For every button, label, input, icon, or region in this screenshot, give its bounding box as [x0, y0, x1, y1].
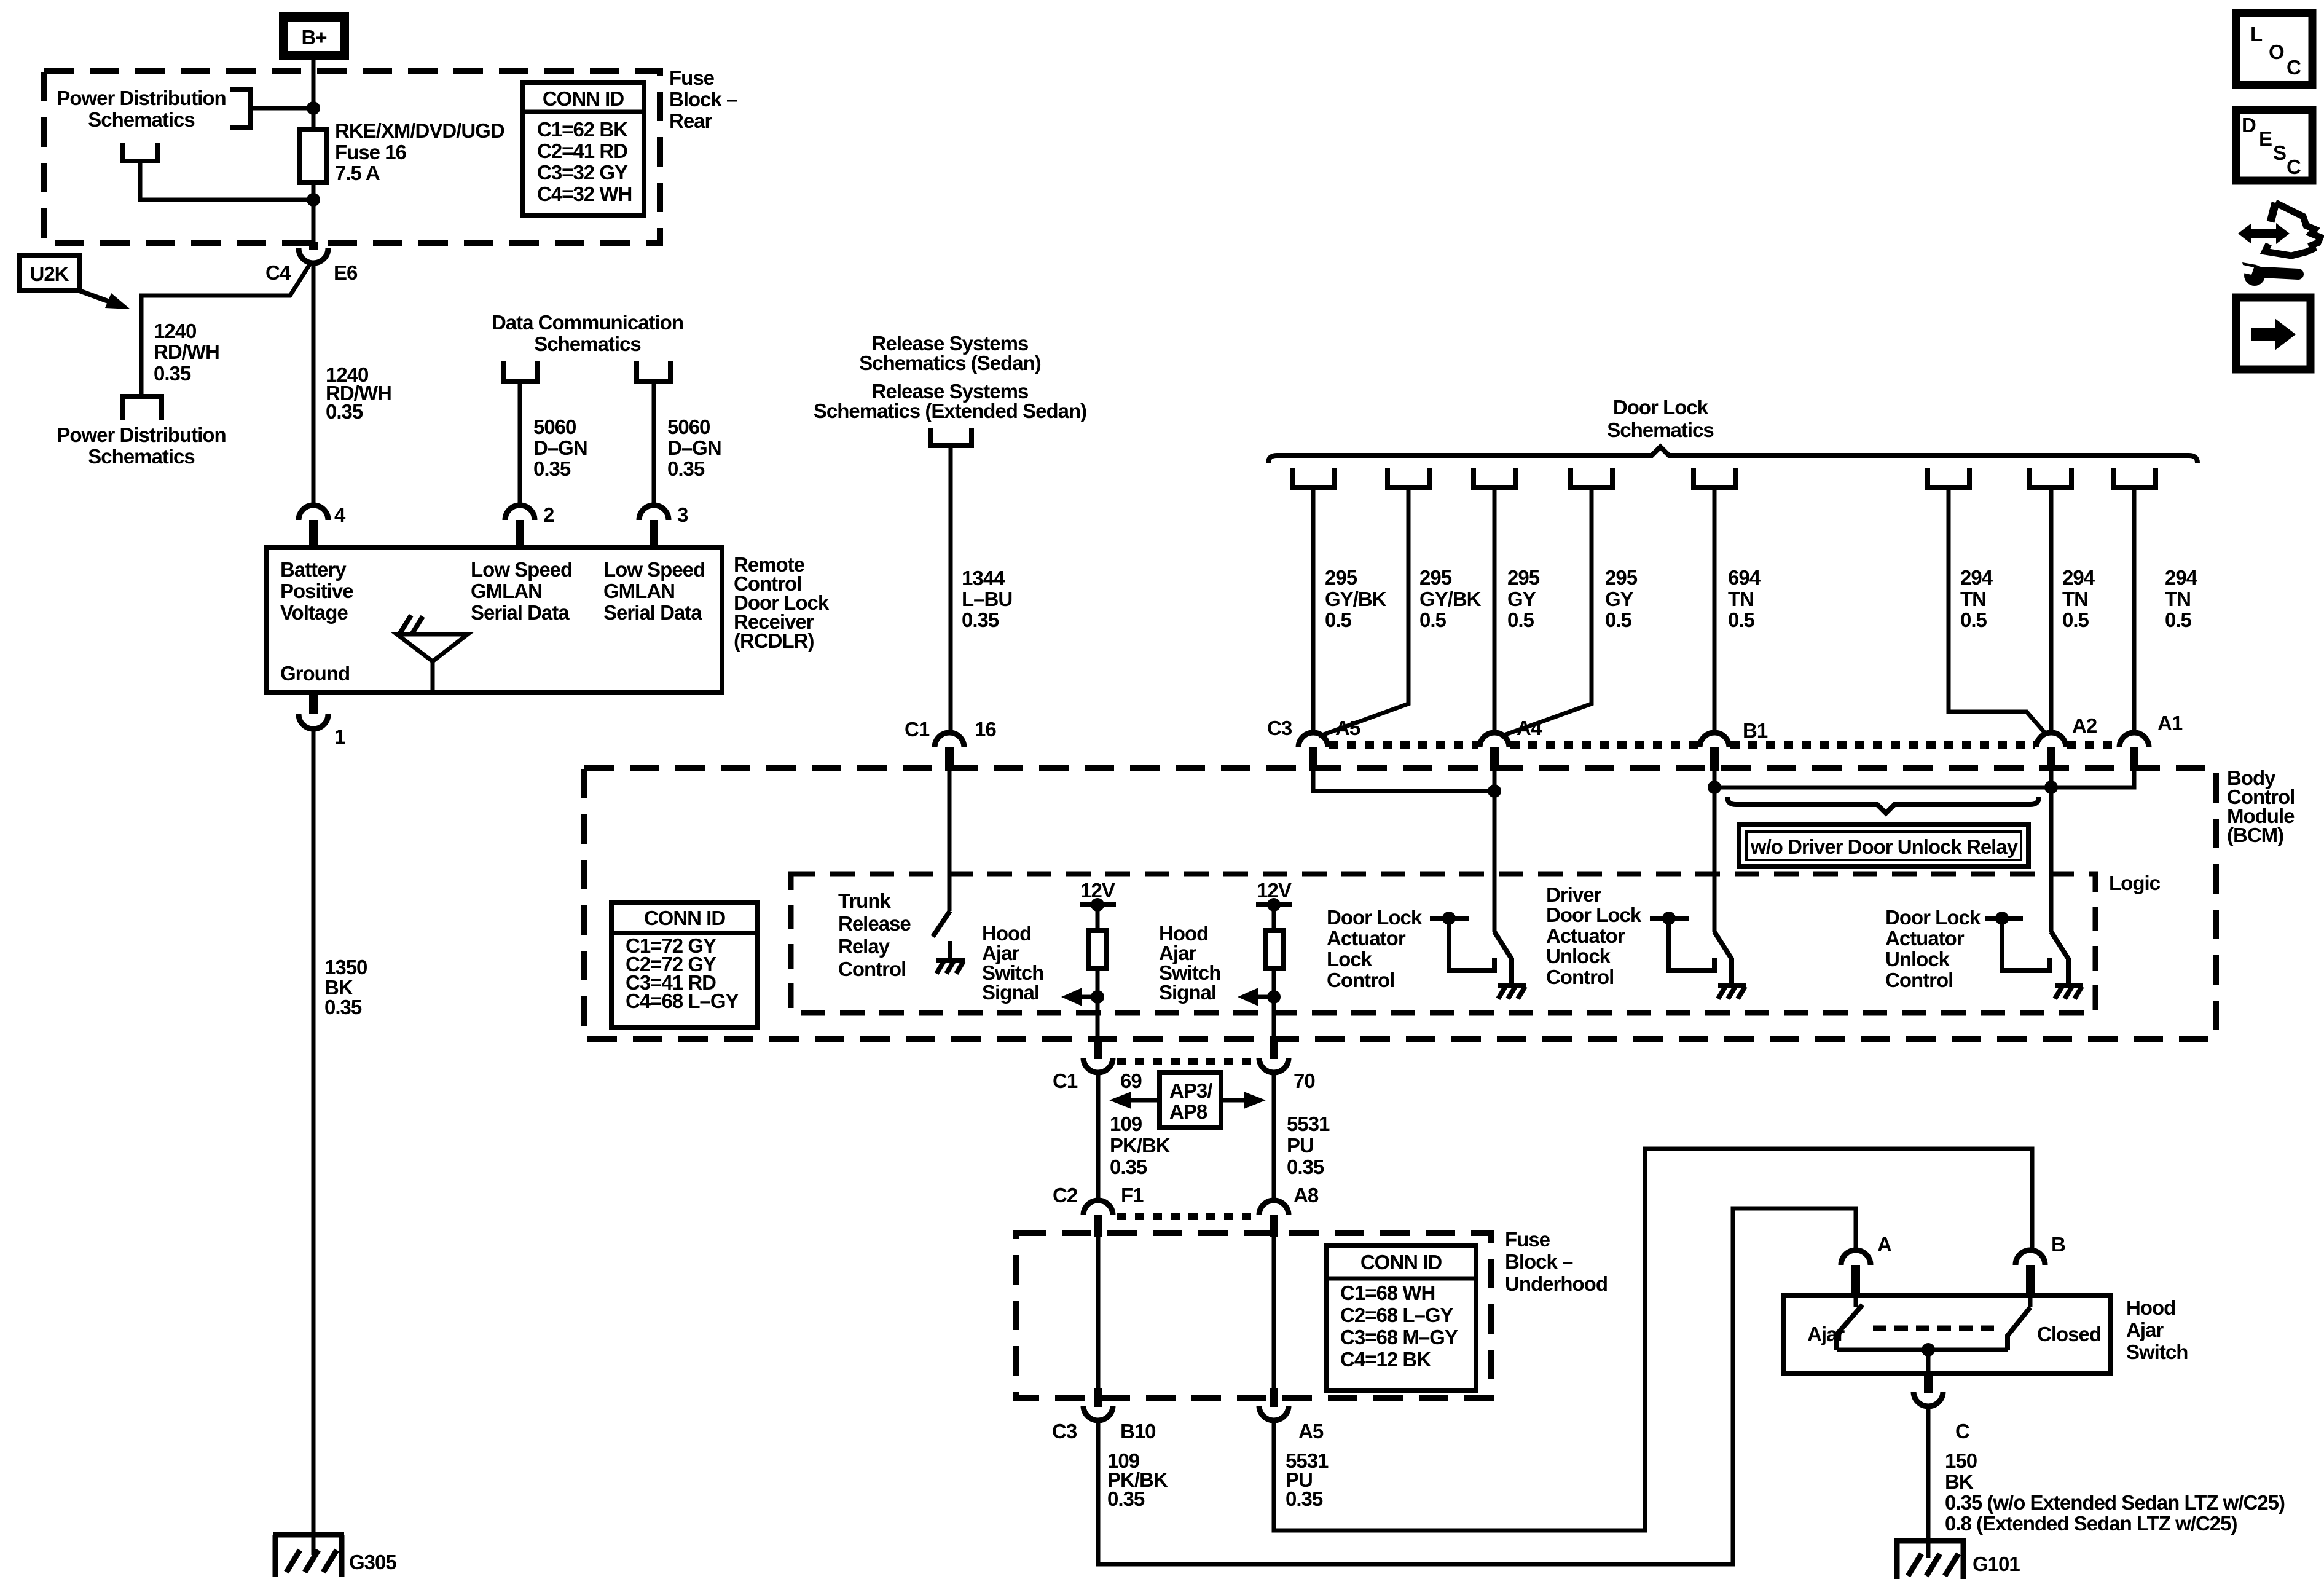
svg-text:0.5: 0.5 — [1605, 608, 1632, 631]
svg-text:A: A — [1877, 1233, 1891, 1256]
wire 694 TN — [1713, 487, 1717, 733]
svg-text:Schematics: Schematics — [88, 445, 194, 468]
svg-text:Signal: Signal — [1159, 981, 1216, 1004]
brace w/o driver door unlock relay — [1727, 797, 2039, 813]
svg-text:295: 295 — [1325, 566, 1357, 589]
hood switch blade ajar side — [1837, 1296, 1863, 1350]
connector pin 3 RCDLR — [639, 503, 688, 548]
svg-text:Power Distribution: Power Distribution — [57, 423, 226, 446]
bracket data comm 2 — [637, 361, 670, 381]
svg-text:AP8: AP8 — [1169, 1100, 1207, 1123]
12V source hood ajar 2 — [1256, 879, 1292, 912]
resistor hood ajar 2 — [1265, 905, 1283, 1040]
svg-text:Signal: Signal — [982, 981, 1039, 1004]
svg-text:Unlock: Unlock — [1885, 948, 1950, 971]
svg-text:295: 295 — [1605, 566, 1638, 589]
wire bus B1 to A1 — [1714, 771, 2134, 787]
connector A8 inline — [1259, 1184, 1319, 1237]
icon DESC navigation box — [2236, 110, 2312, 181]
dotted inline connector bottom — [1117, 1213, 1255, 1220]
icon next page arrow box — [2236, 297, 2310, 369]
svg-text:C: C — [2287, 56, 2301, 79]
svg-text:0.35: 0.35 — [1286, 1487, 1323, 1510]
bracket door lock wire 1 — [1292, 468, 1334, 487]
label 295 GY 0.5 no.2 — [1605, 566, 1638, 631]
connector C4 E6 at fuse block — [265, 242, 358, 284]
label low speed gmlan serial data 1 — [471, 558, 572, 624]
label door lock schematics — [1607, 396, 1713, 441]
label fuse 16 value — [335, 119, 504, 184]
label hood ajar switch — [2126, 1296, 2188, 1363]
svg-text:150: 150 — [1945, 1449, 1977, 1472]
icon LOC navigation box — [2236, 13, 2312, 85]
bracket door lock wire 4 — [1571, 468, 1612, 487]
wire 295 GY/BK no.2 — [1319, 487, 1408, 736]
icon component view arrow and wrench — [2238, 203, 2320, 286]
connector C hood ajar switch — [1914, 1374, 1969, 1443]
label fuse block underhood — [1505, 1228, 1608, 1295]
label 109 PK/BK 0.35 lower — [1107, 1449, 1168, 1510]
svg-text:C1: C1 — [1053, 1069, 1078, 1092]
svg-text:0.5: 0.5 — [1960, 608, 1987, 631]
svg-text:Schematics: Schematics — [88, 108, 194, 131]
label trunk release relay control — [838, 889, 911, 980]
svg-text:0.35: 0.35 — [154, 362, 191, 385]
svg-text:C4=68 L–GY: C4=68 L–GY — [626, 990, 739, 1012]
trunk release relay switch blade — [933, 911, 950, 937]
label 1240 RD/WH 0.35 (C4 branch) — [154, 320, 219, 385]
label remote control door lock receiver RCDLR — [734, 553, 830, 652]
svg-text:Positive: Positive — [280, 580, 353, 602]
ground G101 — [1894, 1541, 2020, 1579]
wire node to fuse — [312, 108, 316, 130]
connector pin 4 RCDLR — [299, 503, 346, 548]
hood switch common wire — [1837, 1343, 2008, 1374]
svg-text:D: D — [2242, 114, 2256, 136]
node junction above fuse — [307, 101, 320, 115]
svg-text:694: 694 — [1728, 566, 1761, 589]
CONN ID table underhood — [1326, 1245, 1476, 1390]
hood ajar switch box — [1784, 1296, 2110, 1374]
svg-text:C4=12 BK: C4=12 BK — [1340, 1348, 1431, 1371]
svg-text:294: 294 — [1960, 566, 1993, 589]
CONN ID table BCM — [611, 902, 758, 1028]
bracket release systems — [930, 428, 972, 446]
unlock control switch contact — [1985, 912, 2049, 971]
ground G305 — [273, 1535, 396, 1577]
connector A1 bump — [2119, 712, 2183, 771]
svg-text:E6: E6 — [334, 261, 358, 284]
wire A2 down to unlock switch — [2049, 771, 2054, 932]
svg-text:Rear: Rear — [669, 109, 713, 132]
U2K arrow — [79, 291, 130, 309]
connector C3 A5 bump — [1267, 717, 1360, 771]
svg-text:0.5: 0.5 — [1419, 608, 1447, 631]
wire C4 branch 1240 RD/WH — [141, 264, 310, 396]
label 694 TN 0.5 — [1728, 566, 1761, 631]
label 109 PK/BK 0.35 upper — [1110, 1112, 1171, 1178]
driver unlock switch contact — [1650, 912, 1714, 971]
trunk release ground — [936, 941, 965, 974]
wire 109 through underhood — [1096, 1237, 1101, 1388]
dotted connector line BCM top — [1329, 741, 2118, 749]
node at A2 — [2044, 781, 2058, 794]
wire bus C3 to A4 — [1313, 771, 1494, 791]
svg-text:Logic: Logic — [2109, 872, 2161, 894]
fuse 16 symbol — [299, 129, 327, 183]
label 295 GY 0.5 no.1 — [1507, 566, 1540, 631]
svg-text:PU: PU — [1287, 1134, 1314, 1157]
svg-text:C4: C4 — [265, 261, 291, 284]
svg-text:0.8 (Extended Sedan LTZ w/C25): 0.8 (Extended Sedan LTZ w/C25) — [1945, 1512, 2237, 1535]
svg-text:C1: C1 — [905, 718, 930, 741]
svg-text:Serial Data: Serial Data — [603, 601, 702, 624]
unlock control switch blade — [2051, 932, 2083, 999]
svg-text:Actuator: Actuator — [1327, 927, 1406, 950]
svg-text:2: 2 — [543, 503, 554, 526]
svg-text:0.5: 0.5 — [1325, 608, 1352, 631]
connector 70 inline — [1259, 1039, 1315, 1092]
svg-text:TN: TN — [2062, 588, 2088, 610]
svg-text:Data Communication: Data Communication — [492, 311, 683, 334]
svg-text:RD/WH: RD/WH — [154, 341, 219, 363]
svg-text:4: 4 — [334, 503, 346, 526]
label Power Distribution Schematics (upper) — [57, 87, 226, 131]
svg-text:E: E — [2259, 127, 2272, 150]
svg-text:5531: 5531 — [1287, 1112, 1330, 1135]
svg-text:70: 70 — [1294, 1069, 1315, 1092]
svg-text:1: 1 — [334, 725, 345, 748]
label battery positive voltage — [280, 558, 353, 624]
svg-text:0.35: 0.35 — [962, 608, 999, 631]
svg-text:Switch: Switch — [2126, 1341, 2188, 1363]
connector A4 bump — [1480, 717, 1542, 771]
svg-text:GY: GY — [1507, 588, 1536, 610]
svg-text:(BCM): (BCM) — [2227, 824, 2283, 846]
label Data Communication Schematics — [492, 311, 683, 355]
svg-text:Low Speed: Low Speed — [471, 558, 572, 581]
battery positive voltage symbol B+ — [279, 12, 349, 60]
svg-text:Ajar: Ajar — [2126, 1318, 2164, 1341]
svg-text:5060: 5060 — [533, 415, 576, 438]
connector A5 — [1259, 1388, 1324, 1443]
wire fuse to box edge — [312, 183, 316, 245]
svg-text:Low Speed: Low Speed — [603, 558, 705, 581]
lock control switch blade — [1494, 932, 1526, 999]
driver unlock switch blade — [1714, 932, 1746, 999]
wire 150 BK — [1926, 1406, 1931, 1558]
svg-text:Schematics: Schematics — [1607, 419, 1713, 441]
svg-text:A2: A2 — [2072, 714, 2097, 737]
svg-text:Control: Control — [838, 958, 906, 980]
wire 294 TN no.2 — [2049, 487, 2054, 733]
svg-text:A5: A5 — [1335, 717, 1360, 739]
bracket door lock wire 6 — [1928, 468, 1969, 487]
wire 295 GY no.2 — [1501, 487, 1592, 736]
svg-text:CONN ID: CONN ID — [543, 87, 624, 110]
connector C3 B10 — [1052, 1388, 1156, 1443]
svg-text:CONN ID: CONN ID — [644, 907, 726, 929]
bracket door lock wire 7 — [2030, 468, 2071, 487]
label release systems schematics — [814, 332, 1086, 422]
svg-text:295: 295 — [1507, 566, 1540, 589]
AP3 arrow left — [1109, 1092, 1160, 1109]
svg-text:Door Lock: Door Lock — [1885, 906, 1981, 929]
svg-text:B1: B1 — [1743, 719, 1768, 742]
label 294 TN 0.5 no.3 — [2165, 566, 2198, 631]
hood switch linkage dashed — [1873, 1326, 2001, 1331]
svg-text:w/o Driver Door Unlock Relay: w/o Driver Door Unlock Relay — [1750, 835, 2019, 858]
label body control module BCM — [2227, 766, 2295, 846]
label 295 GY/BK 0.5 no.1 — [1325, 566, 1387, 631]
svg-text:Release: Release — [838, 912, 911, 935]
AP3/AP8 splice pack box — [1160, 1073, 1221, 1128]
bracket door lock wire 2 — [1388, 468, 1429, 487]
connector B1 bump — [1700, 719, 1768, 771]
svg-text:Fuse: Fuse — [669, 66, 715, 89]
svg-text:Battery: Battery — [280, 558, 347, 581]
label driver door lock actuator unlock control — [1546, 883, 1642, 988]
svg-text:Schematics (Extended Sedan): Schematics (Extended Sedan) — [814, 400, 1086, 422]
label hood ajar switch signal 1 — [982, 922, 1043, 1004]
wire 109 route to hood switch A — [1098, 1208, 1856, 1564]
svg-text:CONN ID: CONN ID — [1360, 1251, 1442, 1274]
svg-text:Door Lock: Door Lock — [1613, 396, 1709, 419]
svg-text:BK: BK — [1945, 1470, 1974, 1493]
svg-text:Actuator: Actuator — [1885, 927, 1965, 950]
signal arrow hood ajar 2 — [1238, 988, 1281, 1006]
wire 5531 route to hood switch B — [1274, 1149, 2032, 1530]
RCDLR module box — [266, 548, 722, 693]
hood switch blade closed side — [2008, 1296, 2030, 1350]
svg-text:GY: GY — [1605, 588, 1634, 610]
svg-text:A8: A8 — [1294, 1184, 1319, 1207]
svg-text:GY/BK: GY/BK — [1419, 588, 1482, 610]
svg-text:D–GN: D–GN — [533, 436, 587, 459]
lock control switch contact — [1430, 912, 1494, 971]
svg-text:B10: B10 — [1120, 1420, 1156, 1443]
BCM dashed box — [584, 768, 2216, 1039]
dotted inline connector top — [1117, 1058, 1255, 1065]
svg-text:0.35: 0.35 — [1107, 1487, 1145, 1510]
label box w/o driver door unlock relay — [1739, 825, 2028, 867]
svg-text:Schematics: Schematics — [534, 333, 640, 355]
svg-text:C1=62 BK: C1=62 BK — [537, 118, 628, 141]
svg-text:0.35: 0.35 — [533, 457, 571, 480]
wire 295 GY/BK no.1 — [1311, 487, 1316, 733]
label 5531 PU 0.35 lower — [1286, 1449, 1329, 1510]
label door lock actuator lock control — [1327, 906, 1423, 991]
svg-text:C2=41 RD: C2=41 RD — [537, 140, 627, 162]
svg-text:3: 3 — [677, 503, 688, 526]
logic dashed box — [791, 874, 2095, 1013]
wire trunk release into BCM — [948, 771, 952, 911]
svg-text:Door Lock: Door Lock — [1327, 906, 1423, 929]
svg-text:C2: C2 — [1053, 1184, 1078, 1207]
svg-text:L: L — [2250, 23, 2263, 45]
svg-text:1350: 1350 — [324, 956, 367, 979]
svg-text:Lock: Lock — [1327, 948, 1373, 971]
svg-text:Control: Control — [1327, 969, 1394, 991]
svg-text:0.5: 0.5 — [1728, 608, 1755, 631]
svg-text:D–GN: D–GN — [667, 436, 721, 459]
svg-text:G305: G305 — [349, 1551, 396, 1573]
connector C1 16 at BCM — [905, 718, 996, 771]
svg-text:U2K: U2K — [29, 262, 69, 285]
svg-text:Unlock: Unlock — [1546, 945, 1611, 967]
svg-text:C3: C3 — [1052, 1420, 1077, 1443]
U2K callout box — [19, 256, 79, 291]
svg-text:Voltage: Voltage — [280, 601, 348, 624]
wire 1350 BK ground wire — [312, 729, 316, 1555]
svg-text:S: S — [2273, 141, 2286, 164]
svg-text:Control: Control — [1885, 969, 1953, 991]
svg-text:(RCDLR): (RCDLR) — [734, 629, 814, 652]
svg-text:Fuse 16: Fuse 16 — [335, 141, 407, 163]
label door lock actuator unlock control — [1885, 906, 1981, 991]
bracket to Power Distribution Schematics (lower) — [122, 143, 157, 161]
svg-text:0.35: 0.35 — [326, 400, 363, 423]
svg-text:C3=32 GY: C3=32 GY — [537, 161, 628, 184]
svg-text:0.5: 0.5 — [2062, 608, 2089, 631]
resistor hood ajar 1 — [1089, 905, 1107, 1040]
svg-text:294: 294 — [2062, 566, 2095, 589]
svg-text:TN: TN — [1728, 588, 1754, 610]
svg-text:B: B — [2051, 1233, 2065, 1256]
svg-text:0.35: 0.35 — [667, 457, 705, 480]
connector pin 1 RCDLR — [299, 693, 345, 748]
svg-text:0.35: 0.35 — [1287, 1156, 1324, 1178]
wire 295 GY no.1 — [1493, 487, 1497, 733]
svg-text:O: O — [2269, 41, 2284, 63]
svg-text:1240: 1240 — [154, 320, 196, 342]
wire B+ to fuse block — [312, 60, 316, 130]
svg-text:C3=68 M–GY: C3=68 M–GY — [1340, 1326, 1458, 1349]
svg-text:7.5 A: 7.5 A — [335, 162, 380, 184]
node junction below fuse — [307, 193, 320, 207]
node at B1 — [1708, 781, 1721, 794]
svg-text:G101: G101 — [1973, 1553, 2020, 1575]
svg-text:0.35 (w/o Extended Sedan LTZ w: 0.35 (w/o Extended Sedan LTZ w/C25) — [1945, 1491, 2285, 1514]
bracket data comm 1 — [503, 361, 537, 381]
antenna symbol RCDLR — [397, 615, 468, 691]
svg-text:Actuator: Actuator — [1546, 924, 1625, 947]
connector pin 2 RCDLR — [505, 503, 554, 548]
label 5531 PU 0.35 upper — [1287, 1112, 1330, 1178]
svg-text:C3: C3 — [1267, 717, 1292, 739]
svg-text:Driver: Driver — [1546, 883, 1602, 906]
wire bracket2 to node2 — [140, 161, 311, 200]
svg-text:RKE/XM/DVD/UGD: RKE/XM/DVD/UGD — [335, 119, 504, 142]
svg-text:C: C — [1955, 1420, 1969, 1443]
AP8 arrow right — [1221, 1092, 1266, 1109]
svg-text:GMLAN: GMLAN — [471, 580, 542, 602]
svg-text:294: 294 — [2165, 566, 2198, 589]
fuse block rear dashed box — [44, 71, 660, 243]
wire 5531 PU upper — [1272, 1073, 1276, 1200]
svg-text:1344: 1344 — [962, 567, 1005, 589]
label 1350 BK 0.35 — [324, 956, 367, 1018]
svg-text:C2=68 L–GY: C2=68 L–GY — [1340, 1304, 1454, 1326]
svg-text:C4=32 WH: C4=32 WH — [537, 183, 632, 205]
wire 294 TN no.1 — [1949, 487, 2047, 735]
svg-text:69: 69 — [1120, 1069, 1142, 1092]
svg-text:Trunk: Trunk — [838, 889, 891, 912]
brace door lock schematics — [1268, 447, 2197, 463]
label hood ajar switch signal 2 — [1159, 922, 1220, 1004]
12V source hood ajar 1 — [1080, 879, 1116, 912]
wire 5060 no.1 — [518, 381, 522, 505]
wire bracket to node — [250, 106, 311, 111]
svg-text:A1: A1 — [2157, 712, 2183, 734]
label 5060 D-GN 0.35 no.1 — [533, 415, 587, 480]
svg-text:Hood: Hood — [2126, 1296, 2175, 1319]
bracket door lock wire 5 — [1694, 468, 1735, 487]
wire B1 down to driver unlock switch — [1713, 771, 1717, 932]
wire 109 PK/BK upper — [1096, 1073, 1101, 1200]
label 1240 RD/WH 0.35 (E6) — [326, 363, 391, 423]
svg-text:16: 16 — [975, 718, 996, 741]
svg-text:0.5: 0.5 — [2165, 608, 2192, 631]
connector C2 F1 inline — [1053, 1184, 1144, 1237]
bracket door lock wire 3 — [1474, 468, 1515, 487]
label 294 TN 0.5 no.1 — [1960, 566, 1993, 631]
svg-text:Door Lock: Door Lock — [1546, 904, 1642, 926]
signal arrow hood ajar 1 — [1061, 988, 1104, 1006]
svg-text:Serial Data: Serial Data — [471, 601, 570, 624]
label 150 BK 0.35 0.8 — [1945, 1449, 2285, 1535]
svg-text:Underhood: Underhood — [1505, 1272, 1608, 1295]
wire A4 down to lock switch — [1493, 771, 1497, 932]
svg-text:295: 295 — [1419, 566, 1452, 589]
connector B hood ajar switch — [2016, 1233, 2065, 1296]
svg-text:B+: B+ — [301, 26, 326, 49]
svg-text:C: C — [2287, 156, 2301, 178]
label 295 GY/BK 0.5 no.2 — [1419, 566, 1482, 631]
label 1344 L-BU 0.35 — [962, 567, 1012, 631]
label 5060 D-GN 0.35 no.2 — [667, 415, 721, 480]
svg-text:0.5: 0.5 — [1507, 608, 1534, 631]
CONN ID table fuse block rear — [523, 82, 644, 216]
label 294 TN 0.5 no.2 — [2062, 566, 2095, 631]
wire 5531 through underhood — [1272, 1237, 1276, 1388]
svg-text:TN: TN — [2165, 588, 2191, 610]
svg-text:109: 109 — [1110, 1112, 1142, 1135]
svg-text:GY/BK: GY/BK — [1325, 588, 1387, 610]
svg-text:L–BU: L–BU — [962, 588, 1012, 610]
svg-text:A4: A4 — [1517, 717, 1542, 739]
label Fuse Block - Rear — [669, 66, 737, 132]
svg-text:Control: Control — [1546, 966, 1614, 988]
wire E6 to RCDLR pin 4 — [312, 263, 316, 504]
svg-text:Closed: Closed — [2037, 1323, 2101, 1345]
svg-text:TN: TN — [1960, 588, 1986, 610]
svg-text:Block –: Block – — [1505, 1250, 1573, 1273]
svg-text:A5: A5 — [1298, 1420, 1324, 1443]
connector C1 69 inline — [1053, 1039, 1142, 1092]
svg-text:PK/BK: PK/BK — [1110, 1134, 1171, 1157]
svg-text:0.35: 0.35 — [1110, 1156, 1147, 1178]
wire 294 TN no.3 — [2132, 487, 2137, 733]
bracket to Power Distribution Schematics (bottom destination) — [122, 396, 162, 420]
connector A2 bump — [2036, 714, 2097, 771]
svg-text:5060: 5060 — [667, 415, 710, 438]
svg-text:AP3/: AP3/ — [1169, 1079, 1212, 1102]
svg-text:C1=68 WH: C1=68 WH — [1340, 1282, 1435, 1304]
svg-text:0.35: 0.35 — [324, 996, 362, 1018]
svg-text:Block –: Block – — [669, 88, 737, 111]
bracket to Power Distribution Schematics (upper) — [230, 89, 250, 128]
